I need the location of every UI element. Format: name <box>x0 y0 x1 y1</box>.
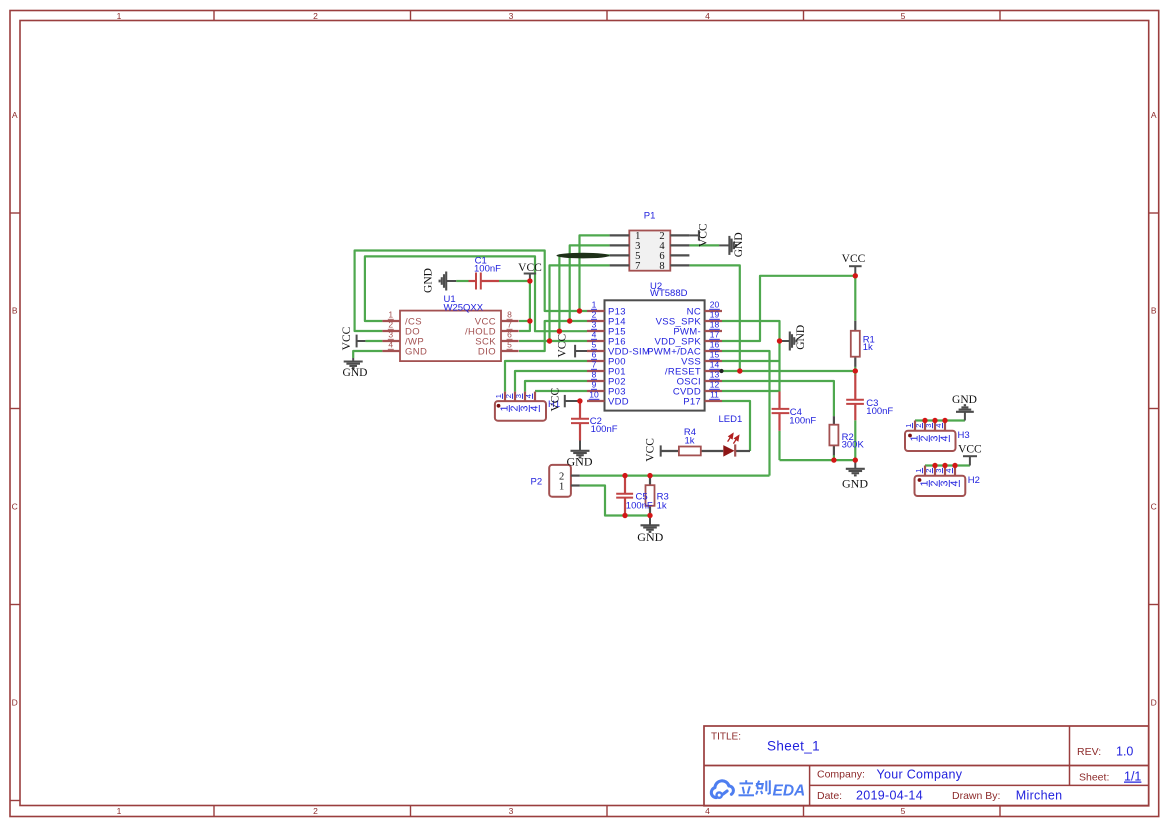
H2 inner pin names <box>919 480 931 487</box>
capacitor C3 leads <box>854 375 856 400</box>
H3 inner pin names <box>909 435 921 442</box>
GND symbol above H3 <box>964 412 966 421</box>
svg-text:GND: GND <box>842 476 868 490</box>
svg-text:2: 2 <box>914 424 923 428</box>
wire U2.VSS_SPK vertical rail <box>722 321 780 392</box>
wire U2.P17 to LED1 cathode <box>722 401 750 451</box>
wire C3 bottom to gnd rail <box>854 420 856 460</box>
wire /RESET row <box>722 370 855 372</box>
U2 left pin stubs 1-10 <box>587 310 605 312</box>
svg-text:100nF: 100nF <box>474 263 501 274</box>
svg-text:4: 4 <box>934 424 943 428</box>
H2 small pin numbers <box>914 468 923 473</box>
svg-text:7: 7 <box>507 320 512 330</box>
svg-text:GND: GND <box>795 325 807 350</box>
svg-text:Company:: Company: <box>817 769 865 781</box>
capacitor C5 plates <box>616 493 633 495</box>
svg-text:GND: GND <box>567 454 593 468</box>
svg-text:3: 3 <box>592 320 597 330</box>
resistor R4 body <box>679 447 701 456</box>
svg-text:5: 5 <box>507 340 512 350</box>
EasyEDA cloud logo <box>711 781 733 798</box>
svg-text:14: 14 <box>710 360 720 370</box>
svg-text:3: 3 <box>388 330 393 340</box>
svg-text:D: D <box>12 698 18 708</box>
title block row line under title <box>704 765 1149 767</box>
title block row line under sheet/company <box>810 784 1149 786</box>
svg-text:1: 1 <box>117 11 122 21</box>
wire U2.PWM+/DAC to P2.2 rail <box>722 351 770 476</box>
svg-text:VCC: VCC <box>645 438 657 462</box>
U1 left pin stubs 1-4 <box>382 320 400 322</box>
svg-text:VCC: VCC <box>557 334 569 358</box>
svg-text:8: 8 <box>659 261 664 272</box>
resistor R1 body <box>851 331 860 357</box>
U2 right pin stubs 20-11 <box>705 310 722 312</box>
svg-text:4: 4 <box>939 435 951 441</box>
GND symbol below R3 <box>649 516 651 526</box>
LED1 arrows <box>728 434 739 444</box>
svg-text:1/1: 1/1 <box>1124 770 1141 784</box>
svg-text:4: 4 <box>944 469 953 473</box>
svg-text:A: A <box>1151 110 1157 120</box>
dark blob on P1.5 wire <box>557 253 610 259</box>
svg-text:H2: H2 <box>968 475 980 486</box>
svg-text:P17: P17 <box>683 396 701 407</box>
VCC symbol at U1./WP <box>357 340 366 342</box>
svg-text:VCC: VCC <box>698 223 710 247</box>
wire P1.8 to U2./RESET <box>689 265 739 371</box>
svg-text:GND: GND <box>637 530 663 544</box>
border row ticks left <box>10 212 20 214</box>
wire R2 bottom to gnd rail <box>833 455 835 460</box>
svg-text:2: 2 <box>313 11 318 21</box>
resistor R3 leads <box>649 476 651 486</box>
H3 first pin marker <box>908 434 912 438</box>
H1 first pin marker <box>497 404 501 408</box>
wire C4 bottom to gnd rail <box>778 431 780 460</box>
svg-text:1: 1 <box>592 300 597 310</box>
capacitor C4 leads <box>778 392 780 409</box>
border column ticks bottom <box>213 806 215 817</box>
svg-text:7: 7 <box>592 360 597 370</box>
svg-text:4: 4 <box>705 806 710 816</box>
svg-text:1: 1 <box>117 806 122 816</box>
svg-text:1: 1 <box>494 394 503 398</box>
GND symbol left of C1 <box>446 280 456 282</box>
wire U2.P01 to H1.2 <box>515 371 587 392</box>
VCC symbol at P1.2 <box>689 234 699 236</box>
resistor R2 leads <box>833 416 835 425</box>
svg-text:2: 2 <box>592 310 597 320</box>
svg-text:H3: H3 <box>958 430 970 441</box>
logo glyph LI <box>739 780 755 795</box>
LED1 cathode bar <box>734 444 736 456</box>
GND symbol below C2 <box>579 441 581 451</box>
capacitor C4 plates <box>772 408 790 410</box>
wire U2.P00 to H1.1 <box>505 361 587 392</box>
svg-text:VCC: VCC <box>842 253 866 265</box>
svg-text:2: 2 <box>313 806 318 816</box>
svg-text:100nF: 100nF <box>789 416 816 427</box>
wire P1.7 to U2.P16 <box>550 265 610 341</box>
svg-text:VCC: VCC <box>518 262 542 274</box>
header H2 body <box>915 476 966 496</box>
connector P2 body <box>549 465 571 497</box>
LED1 wire to cathode corner <box>735 450 750 452</box>
GND symbol below gnd rail <box>854 460 856 469</box>
VCC symbol above R1 <box>854 266 856 276</box>
svg-text:Sheet:: Sheet: <box>1079 772 1109 784</box>
wire U1.SCK to U2.P16 <box>519 340 587 342</box>
wire P1.1 to U2.P13 <box>580 235 610 311</box>
wire U1.VCC pin8 <box>519 320 530 322</box>
svg-text:4: 4 <box>388 340 393 350</box>
title block logo cell divider <box>809 766 811 806</box>
svg-text:13: 13 <box>710 370 720 380</box>
svg-text:4: 4 <box>524 394 533 398</box>
svg-text:100nF: 100nF <box>591 424 618 435</box>
svg-text:GND: GND <box>405 346 427 357</box>
connector P1 body <box>629 231 670 271</box>
svg-text:C: C <box>12 502 18 512</box>
svg-text:B: B <box>12 306 18 316</box>
svg-text:1: 1 <box>559 481 564 492</box>
svg-text:5: 5 <box>901 11 906 21</box>
resistor R1 leads <box>854 321 856 331</box>
wire VCC to R1 top <box>854 276 856 321</box>
LED1 triangle <box>723 445 734 457</box>
wire C1 left to GND <box>456 280 468 282</box>
wire C1 right to VCC node <box>499 280 530 282</box>
svg-text:3: 3 <box>514 394 523 398</box>
svg-text:WT588D: WT588D <box>650 288 688 299</box>
svg-text:VCC: VCC <box>958 443 982 455</box>
title block REV column divider <box>1069 726 1071 785</box>
svg-text:3: 3 <box>509 11 514 21</box>
wire H3 pins to GND <box>915 419 965 421</box>
svg-text:10: 10 <box>589 390 599 400</box>
svg-text:GND: GND <box>423 268 435 293</box>
svg-text:Your Company: Your Company <box>877 767 963 781</box>
H1 inner pin names <box>499 405 511 412</box>
H2 first pin marker <box>918 478 922 482</box>
capacitor C2 leads <box>579 401 581 419</box>
wire R1 bottom to net <box>854 367 856 376</box>
capacitor C1 leads <box>469 280 477 282</box>
svg-text:1: 1 <box>388 310 393 320</box>
svg-text:EDA: EDA <box>773 782 806 799</box>
resistor R4 leads <box>661 450 679 452</box>
wire U1.DO to U2.P13 <box>355 251 587 332</box>
svg-text:TITLE:: TITLE: <box>711 732 741 743</box>
svg-text:GND: GND <box>343 367 368 379</box>
header H1 body <box>495 401 546 421</box>
svg-text:2: 2 <box>504 394 513 398</box>
svg-text:VCC: VCC <box>550 388 562 412</box>
svg-text:9: 9 <box>592 380 597 390</box>
svg-text:20: 20 <box>710 300 720 310</box>
svg-text:3: 3 <box>924 424 933 428</box>
wire U2.P02 to H1.3 <box>525 381 587 392</box>
H1 pin stubs up <box>504 392 506 402</box>
svg-text:1k: 1k <box>863 342 873 353</box>
H3 pin stubs up <box>914 421 916 431</box>
svg-text:7: 7 <box>635 261 640 272</box>
svg-text:1: 1 <box>914 469 923 473</box>
svg-text:300K: 300K <box>842 440 865 451</box>
svg-text:100nF: 100nF <box>626 501 653 512</box>
svg-text:4: 4 <box>592 330 597 340</box>
P2 pin stubs <box>571 475 580 477</box>
svg-text:Date:: Date: <box>817 790 842 802</box>
wire U2.OSCI to R2 top <box>722 381 834 416</box>
capacitor C1 plates <box>475 273 477 290</box>
wire U1./WP to VCC <box>365 340 382 342</box>
wire gnd rail horizontal <box>780 459 856 461</box>
wire U1./CS to U2.P15 <box>365 256 587 331</box>
svg-text:P2: P2 <box>531 477 543 488</box>
svg-text:4: 4 <box>949 480 961 486</box>
svg-text:W25QXX: W25QXX <box>444 302 484 313</box>
svg-text:Drawn By:: Drawn By: <box>952 790 1000 802</box>
svg-text:1k: 1k <box>657 500 667 511</box>
GND symbol at P1.4 <box>719 244 729 246</box>
svg-text:1.0: 1.0 <box>1116 744 1133 758</box>
svg-text:3: 3 <box>509 806 514 816</box>
capacitor C5 leads <box>624 476 626 494</box>
P1 right pin stubs <box>670 234 689 236</box>
svg-text:C: C <box>1151 502 1157 512</box>
GND symbol mid right of U2 <box>780 340 790 342</box>
wire U2.VSS pin15 <box>722 360 780 362</box>
header H3 body <box>905 431 956 451</box>
svg-text:GND: GND <box>733 232 745 257</box>
border column ticks top <box>213 11 215 21</box>
svg-text:3: 3 <box>934 469 943 473</box>
svg-text:VDD: VDD <box>608 396 629 407</box>
svg-text:16: 16 <box>710 340 720 350</box>
svg-text:5: 5 <box>901 806 906 816</box>
svg-text:6: 6 <box>592 350 597 360</box>
wire U2.VDD_SPK to VCC <box>722 276 855 341</box>
svg-text:DIO: DIO <box>478 346 496 357</box>
wire U1./HOLD to VCC node <box>519 281 530 331</box>
H3 small pin numbers <box>904 423 913 428</box>
IC U1 W25QXX body <box>400 311 501 362</box>
svg-text:2: 2 <box>388 320 393 330</box>
svg-text:8: 8 <box>592 370 597 380</box>
wire U2.P03 to H1.4 <box>535 390 587 392</box>
svg-text:REV:: REV: <box>1077 746 1101 758</box>
svg-text:B: B <box>1151 306 1157 316</box>
wire P1.5 to U2.P15 <box>559 255 609 331</box>
wire P2.1 to lower gnd rail <box>580 486 650 516</box>
wire U1.DIO to U2.P14 <box>519 321 587 351</box>
svg-text:A: A <box>12 110 18 120</box>
H3 junction dots <box>922 418 927 423</box>
svg-text:4: 4 <box>529 405 541 411</box>
capacitor C2 plates <box>571 418 589 420</box>
svg-text:8: 8 <box>507 310 512 320</box>
svg-text:LED1: LED1 <box>719 414 743 425</box>
unconnected pin dot at U2./RESET <box>719 369 723 373</box>
svg-text:18: 18 <box>710 320 720 330</box>
wire P1.4 to GND <box>689 244 719 246</box>
logo glyph CHUANG <box>756 780 770 794</box>
svg-text:2019-04-14: 2019-04-14 <box>856 789 923 803</box>
resistor R3 body <box>646 485 655 506</box>
svg-text:2: 2 <box>924 469 933 473</box>
VCC symbol at U2.VDD <box>565 400 579 402</box>
svg-text:19: 19 <box>710 310 720 320</box>
svg-text:6: 6 <box>507 330 512 340</box>
border row ticks right <box>1149 212 1159 214</box>
U1 right pin stubs 8-5 <box>501 320 519 322</box>
P1 left pin stubs <box>610 234 630 236</box>
svg-text:4: 4 <box>705 11 710 21</box>
svg-text:P1: P1 <box>644 210 656 221</box>
wire U1.GND pin4 <box>353 351 382 358</box>
H2 junction dots <box>932 463 937 468</box>
wire H2 pins to VCC <box>925 464 970 466</box>
VCC symbol above H2 <box>969 456 971 465</box>
wire P2.2 rail horizontal <box>580 475 770 477</box>
svg-text:GND: GND <box>952 394 977 406</box>
svg-text:VCC: VCC <box>341 326 353 350</box>
resistor R2 body <box>829 425 838 446</box>
title block outline <box>704 726 1149 806</box>
GND symbol below U1.GND <box>352 358 354 362</box>
wire P1.3 to U2.P14 <box>570 245 610 321</box>
svg-text:100nF: 100nF <box>866 406 893 417</box>
H1 small pin numbers <box>494 394 503 399</box>
junction dots <box>527 278 532 283</box>
svg-text:5: 5 <box>592 340 597 350</box>
svg-text:Sheet_1: Sheet_1 <box>767 739 820 754</box>
svg-text:17: 17 <box>710 330 720 340</box>
VCC symbol left of R4 <box>660 445 662 456</box>
svg-text:15: 15 <box>710 350 720 360</box>
wire U2.CVDD pin12 <box>722 390 780 392</box>
capacitor C3 plates <box>846 399 864 401</box>
svg-text:11: 11 <box>710 390 719 400</box>
svg-text:1: 1 <box>904 424 913 428</box>
H2 pin stubs up <box>924 466 926 476</box>
VCC symbol at U2.VDD-SIM <box>575 350 587 352</box>
svg-text:1k: 1k <box>684 436 694 447</box>
IC U2 WT588D body <box>605 300 705 410</box>
svg-text:12: 12 <box>710 380 720 390</box>
svg-text:D: D <box>1151 698 1157 708</box>
VCC symbol above C1 node <box>529 274 531 281</box>
svg-text:Mirchen: Mirchen <box>1016 788 1063 802</box>
